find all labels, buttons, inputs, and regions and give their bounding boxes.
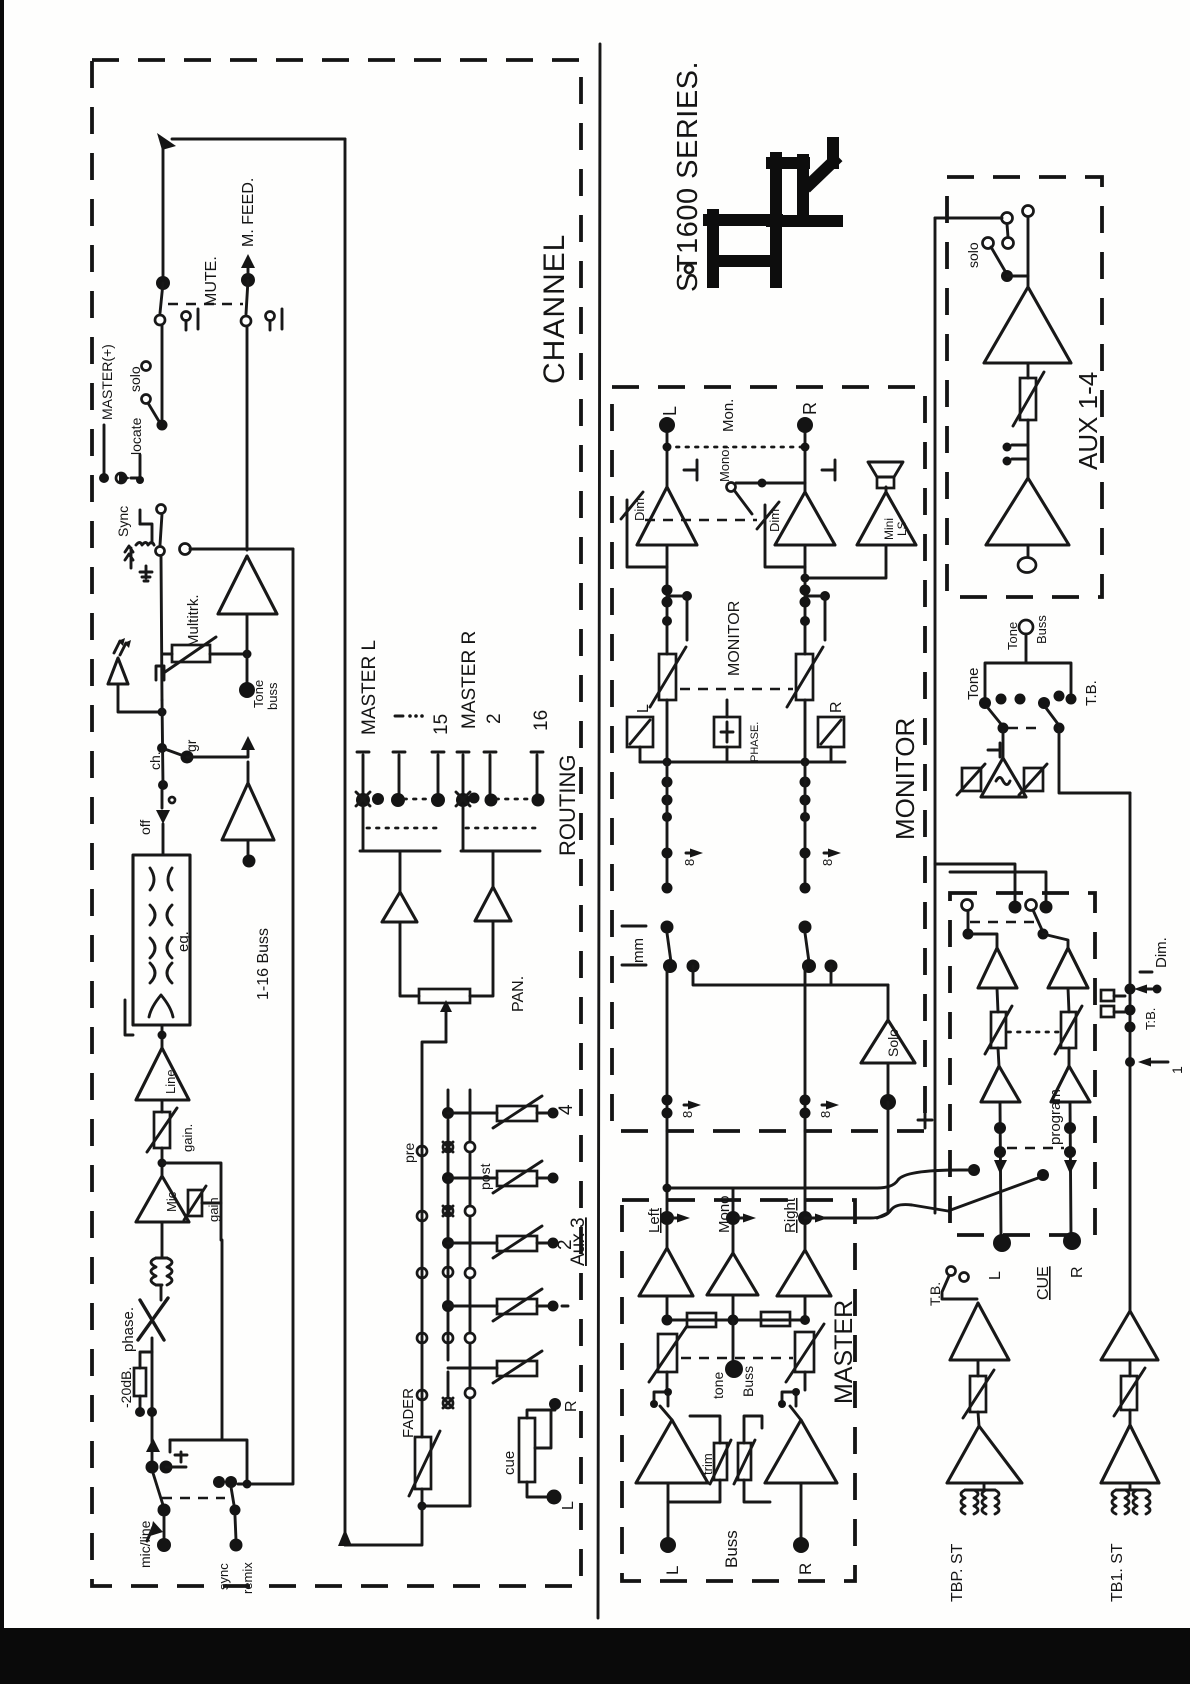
svg-text:program: program xyxy=(1047,1089,1064,1145)
svg-text:Buss: Buss xyxy=(1034,615,1049,644)
svg-text:Dim.: Dim. xyxy=(1153,937,1170,968)
svg-text:1: 1 xyxy=(1169,1066,1185,1074)
svg-text:R: R xyxy=(1069,1266,1086,1278)
svg-text:Tone: Tone xyxy=(965,667,982,700)
svg-text:T.B.: T.B. xyxy=(1083,680,1100,706)
svg-text:T:B.: T:B. xyxy=(1143,1008,1158,1030)
svg-text:Tone: Tone xyxy=(1005,622,1020,650)
svg-text:TB1. ST: TB1. ST xyxy=(1109,1543,1126,1602)
svg-text:L: L xyxy=(987,1271,1004,1280)
svg-text:TBP. ST: TBP. ST xyxy=(949,1543,966,1602)
svg-text:AUX 1-4: AUX 1-4 xyxy=(1073,372,1103,470)
svg-text:CUE: CUE xyxy=(1035,1266,1052,1300)
svg-text:solo: solo xyxy=(965,242,981,268)
